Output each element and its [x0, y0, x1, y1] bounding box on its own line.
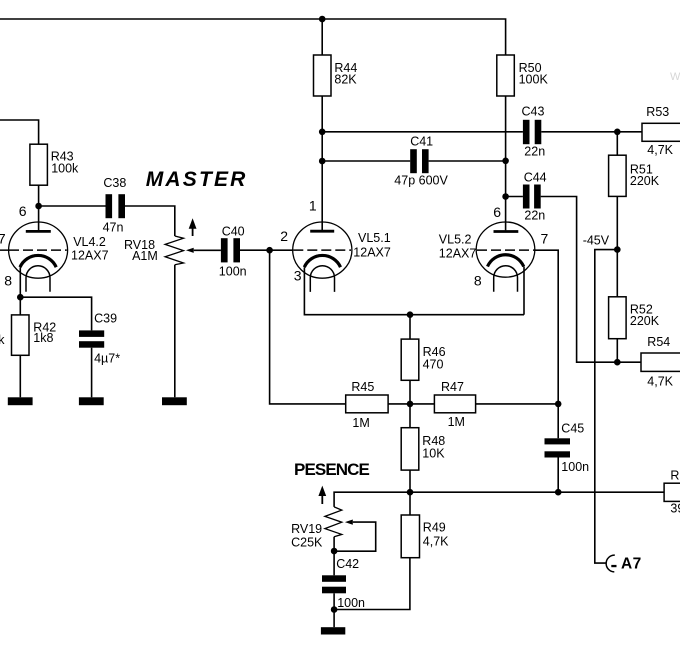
svg-text:22n: 22n	[524, 145, 545, 159]
arrow RV19 up	[318, 486, 326, 504]
svg-text:6: 6	[19, 203, 27, 219]
wire C44 right to R54	[541, 197, 641, 363]
svg-text:8: 8	[4, 272, 12, 288]
wire C41 left	[322, 160, 410, 162]
svg-text:6: 6	[493, 204, 501, 220]
svg-text:12AX7: 12AX7	[353, 245, 391, 259]
junction anode2/C41	[502, 158, 509, 165]
svg-text:C25K: C25K	[291, 536, 323, 550]
wire C39 bottom	[91, 348, 93, 398]
wire C44 left stub	[506, 196, 523, 198]
wire R43 bottom to VL4.2 anode	[38, 185, 40, 230]
svg-text:PESENCE: PESENCE	[294, 460, 370, 479]
pin 7 VL5.2	[541, 231, 549, 247]
ground RV18	[162, 397, 187, 405]
svg-text:W: W	[670, 71, 680, 83]
svg-text:1M: 1M	[352, 416, 369, 430]
svg-text:R45: R45	[351, 380, 374, 394]
junction cathode bus / R46	[407, 311, 414, 318]
wire R42 bottom	[19, 355, 21, 397]
svg-text:R54: R54	[647, 335, 670, 349]
svg-text:MASTER: MASTER	[146, 168, 248, 191]
svg-text:390: 390	[670, 502, 680, 516]
pin 1 VL5.1	[309, 198, 317, 214]
wire VL5.2 cathode lead	[523, 267, 525, 315]
wire R42 top	[19, 297, 21, 315]
svg-text:100n: 100n	[561, 460, 589, 474]
tube VL5.2	[439, 222, 535, 292]
potentiometer RV19	[291, 507, 342, 550]
potentiometer RV18	[124, 236, 184, 265]
capacitor C39	[79, 312, 120, 366]
wire R47 right	[476, 403, 559, 405]
svg-text:12AX7: 12AX7	[439, 247, 477, 261]
resistor R54	[641, 335, 680, 388]
wire R51 top	[616, 132, 618, 155]
svg-text:100K: 100K	[519, 73, 549, 87]
wire C42 bottom to ground	[333, 593, 335, 627]
wire R48 top	[409, 404, 411, 428]
wire VL5.1 anode column	[321, 96, 323, 230]
wire VL5.2 anode column	[505, 96, 507, 230]
label PESENCE	[294, 460, 370, 479]
svg-text:10K: 10K	[422, 446, 445, 460]
svg-text:1k8: 1k8	[33, 331, 53, 345]
svg-text:C43: C43	[522, 105, 545, 119]
svg-text:C44: C44	[524, 171, 547, 185]
wiper RV19	[334, 520, 376, 552]
pin 8 VL4.2	[4, 272, 12, 288]
junction anode/C43	[319, 129, 326, 136]
resistor R50	[497, 55, 549, 96]
wire presence bus	[334, 492, 664, 507]
svg-text:4,7K: 4,7K	[647, 374, 673, 388]
svg-text:2: 2	[280, 228, 288, 244]
ground C42	[321, 627, 345, 634]
svg-text:VL5.2: VL5.2	[439, 233, 472, 247]
svg-text:220K: 220K	[630, 314, 660, 328]
capacitor C38	[103, 176, 127, 235]
svg-text:4,7K: 4,7K	[423, 535, 449, 549]
capacitor C44	[523, 171, 547, 223]
resistor R42	[12, 315, 57, 355]
wire R45 right	[388, 403, 434, 405]
connector A7	[606, 555, 641, 573]
wire HT rail top	[0, 19, 506, 55]
tube VL4.2	[0, 222, 109, 292]
wire R48 bottom	[409, 470, 411, 492]
svg-text:C45: C45	[561, 421, 584, 435]
pin 2 VL5.1	[280, 228, 288, 244]
pin 6 VL5.2	[493, 204, 501, 220]
resistor R46	[401, 339, 445, 380]
wire RV18 bottom to ground	[174, 265, 176, 398]
svg-text:4µ7*: 4µ7*	[94, 352, 120, 366]
resistor R45	[346, 380, 388, 430]
svg-text:C42: C42	[336, 557, 359, 571]
junction C43/R51	[614, 129, 621, 136]
label -45V	[583, 234, 610, 248]
wire VL5.2 grid to C45 column	[534, 250, 558, 438]
svg-text:8: 8	[474, 272, 482, 288]
svg-text:C38: C38	[103, 176, 126, 190]
svg-text:VL5.1: VL5.1	[358, 231, 391, 245]
junction VL4.2 cathode	[17, 294, 24, 301]
ghost mark top right	[670, 71, 680, 83]
svg-text:3: 3	[294, 268, 302, 284]
svg-text:-45V: -45V	[583, 234, 610, 248]
arrow RV18 up	[189, 218, 197, 236]
svg-text:22n: 22n	[524, 209, 545, 223]
junction -45V node	[614, 246, 621, 253]
wire grid down to R45	[270, 250, 346, 404]
capacitor C42	[322, 557, 365, 610]
pin 7 VL4.2	[0, 231, 6, 247]
wire R51 bottom to R52	[616, 196, 618, 296]
pin 3 VL5.1	[294, 268, 302, 284]
junction R47/C45	[555, 401, 562, 408]
wire C43 left	[322, 131, 523, 133]
junction bus/R48	[407, 489, 414, 496]
wire RV19 bottom to C42	[333, 537, 335, 576]
svg-text:47n: 47n	[103, 220, 124, 234]
svg-text:A1M: A1M	[132, 249, 158, 263]
label MASTER	[146, 168, 248, 191]
junction VL5.1 grid	[266, 247, 273, 254]
svg-text:1M: 1M	[448, 415, 465, 429]
tube VL5.1	[293, 222, 391, 292]
wire C40 right to VL5.1 grid	[240, 249, 293, 251]
svg-text:C40: C40	[222, 224, 245, 238]
resistor R43	[30, 144, 79, 185]
junction VL4.2 anode	[35, 203, 42, 210]
svg-text:VL4.2: VL4.2	[73, 235, 106, 249]
wire R44 top	[321, 19, 323, 55]
svg-text:R49: R49	[423, 521, 446, 535]
wire R46 bottom	[409, 380, 411, 404]
wire C45 bottom	[557, 458, 559, 493]
svg-text:82K: 82K	[334, 73, 357, 87]
resistor R51	[609, 155, 660, 196]
pin 8 VL5.2	[474, 272, 482, 288]
wire left input top	[0, 120, 39, 144]
svg-text:220K: 220K	[630, 174, 660, 188]
svg-text:47p 600V: 47p 600V	[394, 173, 448, 187]
resistor R44	[314, 55, 358, 96]
svg-text:7: 7	[0, 231, 6, 247]
svg-text:1: 1	[309, 198, 317, 214]
ground C39	[79, 397, 104, 405]
svg-text:k: k	[0, 333, 5, 347]
capacitor C41	[394, 135, 448, 188]
resistor R48	[401, 428, 445, 470]
pin 6 VL4.2	[19, 203, 27, 219]
wire C41 right	[429, 160, 506, 162]
wire R46 top	[409, 315, 411, 339]
capacitor C40	[219, 224, 247, 278]
svg-text:C39: C39	[94, 312, 117, 326]
svg-text:100k: 100k	[51, 161, 79, 175]
resistor R55	[664, 468, 680, 515]
junction bus/C45	[555, 489, 562, 496]
svg-text:100n: 100n	[219, 264, 247, 278]
svg-text:C41: C41	[410, 135, 433, 149]
svg-text:470: 470	[423, 357, 444, 371]
wire cathode to C39	[20, 297, 91, 330]
wire C38 right to RV18	[125, 206, 175, 236]
capacitor C45	[545, 421, 590, 474]
wire A7 branch	[595, 250, 618, 563]
wire anode to C38	[39, 205, 106, 207]
resistor R52	[609, 297, 660, 339]
resistor R47	[434, 380, 475, 429]
wiper RV18	[186, 248, 221, 253]
svg-text:R53: R53	[646, 105, 669, 119]
resistor R49	[401, 515, 449, 558]
junction anode/C41	[319, 158, 326, 165]
wire R49 top	[409, 492, 411, 515]
svg-text:A7: A7	[621, 556, 642, 573]
wire VL4.2 cathode lead	[19, 267, 21, 297]
svg-text:R55: R55	[670, 468, 680, 482]
junction R52/R54	[614, 359, 621, 366]
junction HT/R44	[319, 16, 326, 23]
capacitor C43	[522, 105, 546, 159]
svg-text:7: 7	[541, 231, 549, 247]
junction C42/R49 return	[331, 606, 338, 613]
wire C43 right to R53	[541, 131, 642, 133]
junction anode2/C44	[502, 193, 509, 200]
wire VL5.1 cathode to bus	[304, 267, 524, 315]
svg-text:4,7K: 4,7K	[647, 143, 673, 157]
junction RV19 bottom	[331, 548, 338, 555]
wire R49 return	[334, 558, 410, 610]
wire R52 bottom	[616, 339, 618, 363]
label k cut at edge	[0, 333, 5, 347]
svg-text:RV19: RV19	[291, 522, 322, 536]
resistor R53	[642, 105, 680, 157]
ground R42	[8, 397, 33, 405]
svg-text:R47: R47	[441, 380, 464, 394]
svg-text:12AX7: 12AX7	[71, 248, 109, 262]
svg-text:100n: 100n	[337, 596, 365, 610]
junction R45/R46/R47/R48	[407, 401, 414, 408]
